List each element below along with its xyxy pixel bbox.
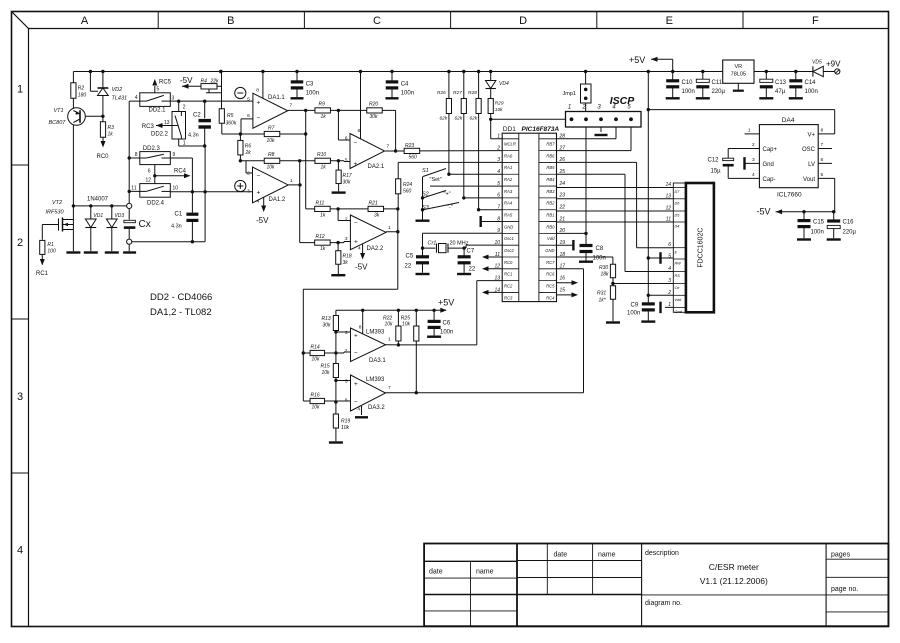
svg-text:DA1.1: DA1.1 [268,95,285,101]
svg-text:GND: GND [504,224,513,229]
svg-text:Gnd: Gnd [675,310,683,314]
svg-text:2: 2 [17,237,23,249]
svg-text:100n: 100n [593,256,606,262]
svg-text:100n: 100n [306,91,319,97]
svg-text:R18: R18 [343,254,352,260]
svg-text:R30: R30 [599,265,608,271]
svg-text:C8: C8 [596,246,604,252]
svg-text:DA2.1: DA2.1 [368,164,385,170]
svg-text:name: name [476,569,494,576]
svg-text:15µ: 15µ [711,169,722,175]
svg-text:VD2: VD2 [112,87,123,93]
svg-text:DA1,2 - TL082: DA1,2 - TL082 [150,307,212,318]
svg-text:RC3: RC3 [504,295,513,300]
svg-text:R15: R15 [321,364,330,370]
svg-text:15: 15 [560,287,566,293]
svg-text:VT1: VT1 [54,108,64,114]
svg-text:30k: 30k [343,180,352,186]
svg-text:560: 560 [409,155,418,161]
svg-text:1: 1 [668,302,671,308]
svg-text:+9V: +9V [826,60,841,69]
svg-text:1k: 1k [320,246,326,252]
svg-text:R31: R31 [597,291,606,297]
svg-text:8: 8 [256,88,259,94]
svg-text:RB1: RB1 [546,213,554,218]
svg-text:R19: R19 [341,419,350,425]
svg-text:Vdd: Vdd [547,236,555,241]
svg-text:22: 22 [559,205,566,211]
svg-text:100n: 100n [627,311,640,317]
svg-text:R1: R1 [47,242,54,248]
svg-text:RB0: RB0 [546,224,555,229]
svg-text:6: 6 [497,193,500,199]
svg-text:12: 12 [665,206,671,212]
svg-text:diagram no.: diagram no. [645,600,682,607]
svg-text:C7: C7 [467,249,475,255]
svg-text:C12: C12 [708,158,720,164]
svg-text:VD4: VD4 [499,81,509,87]
svg-text:20 MHz: 20 MHz [450,241,469,247]
svg-text:3: 3 [752,157,755,163]
svg-text:5: 5 [345,158,348,164]
svg-text:2: 2 [247,171,250,177]
svg-text:14: 14 [665,182,671,188]
svg-text:DD2.4: DD2.4 [147,201,165,207]
svg-text:4: 4 [752,172,755,178]
svg-text:Vdd: Vdd [675,298,683,302]
svg-text:30k: 30k [370,114,379,120]
svg-text:3: 3 [668,278,671,284]
svg-text:S2: S2 [422,192,429,198]
svg-text:18k: 18k [601,272,610,278]
svg-text:5: 5 [821,172,824,178]
svg-text:2: 2 [581,105,586,111]
svg-text:C10: C10 [682,80,694,86]
svg-text:BC807: BC807 [49,120,67,126]
svg-text:Cap+: Cap+ [763,147,778,153]
svg-text:Cx: Cx [139,219,151,230]
svg-text:DD2.1: DD2.1 [149,108,167,114]
svg-text:pages: pages [831,552,851,559]
svg-text:R12: R12 [316,234,325,240]
svg-text:5: 5 [247,96,250,102]
svg-text:VT2: VT2 [52,200,62,206]
svg-text:4: 4 [668,266,671,272]
svg-text:V1.1 (21.12.2006): V1.1 (21.12.2006) [700,576,768,586]
svg-text:Osc1: Osc1 [504,236,514,241]
svg-text:10k: 10k [267,138,276,144]
svg-text:180: 180 [78,93,87,99]
svg-text:DD2.3: DD2.3 [143,146,161,152]
svg-text:−: − [354,220,358,227]
svg-text:DA4: DA4 [782,117,795,124]
svg-text:5: 5 [157,87,160,93]
svg-text:−: − [354,350,358,357]
svg-text:C: C [373,15,381,27]
svg-text:3: 3 [497,157,500,163]
svg-text:MCLR: MCLR [504,142,516,147]
svg-text:R21: R21 [369,201,378,207]
svg-text:RA4: RA4 [504,201,513,206]
svg-text:14: 14 [494,287,500,293]
svg-text:S3: S3 [422,205,430,211]
svg-text:220µ: 220µ [712,89,726,95]
svg-text:1k*: 1k* [599,298,607,304]
svg-text:C/ESR meter: C/ESR meter [709,562,759,572]
svg-text:8: 8 [135,152,138,158]
svg-text:220µ: 220µ [843,230,857,236]
svg-text:25: 25 [559,169,566,175]
svg-text:10k: 10k [402,322,411,328]
svg-text:C9: C9 [631,303,639,309]
svg-text:8: 8 [358,128,361,134]
svg-text:RA5: RA5 [504,213,513,218]
svg-text:"+": "+" [444,192,451,198]
svg-text:1: 1 [748,128,751,134]
svg-text:OSC: OSC [802,147,816,153]
svg-text:30k: 30k [323,323,332,329]
svg-text:1: 1 [388,225,391,231]
svg-text:3: 3 [345,236,348,242]
svg-text:3: 3 [17,391,23,403]
svg-text:D: D [519,15,527,27]
svg-text:R2: R2 [78,86,85,92]
svg-text:18: 18 [560,252,566,258]
svg-text:1k: 1k [321,114,327,120]
svg-text:R5: R5 [227,113,234,119]
svg-text:100n: 100n [440,330,453,336]
svg-text:21: 21 [559,216,566,222]
svg-text:RW: RW [675,262,682,266]
svg-text:DA3.2: DA3.2 [368,405,385,411]
svg-text:8: 8 [497,216,500,222]
svg-text:7: 7 [387,144,390,150]
svg-text:3: 3 [172,96,175,102]
svg-text:1: 1 [568,105,571,111]
svg-text:100n: 100n [401,91,414,97]
svg-text:5: 5 [345,379,348,385]
svg-text:100n: 100n [682,89,695,95]
svg-text:-5V: -5V [757,207,771,217]
svg-text:+5V: +5V [438,298,454,308]
svg-text:C2: C2 [193,113,201,119]
svg-text:11: 11 [666,217,671,223]
svg-text:22: 22 [469,267,476,273]
svg-text:7: 7 [497,205,500,211]
svg-text:3k: 3k [374,213,380,219]
svg-text:47µ: 47µ [775,89,786,95]
svg-text:13: 13 [494,275,500,281]
svg-text:VD5: VD5 [812,60,822,66]
svg-text:R6: R6 [245,144,252,150]
svg-text:C15: C15 [813,220,825,226]
svg-text:4: 4 [357,407,360,413]
svg-text:10k: 10k [341,425,350,431]
svg-text:RA2: RA2 [504,177,513,182]
svg-text:date: date [429,569,443,576]
svg-text:2: 2 [345,348,348,354]
svg-text:RC3: RC3 [142,124,155,130]
svg-text:1: 1 [388,337,391,343]
svg-text:RC0: RC0 [97,154,110,160]
svg-text:10k: 10k [312,357,321,363]
svg-text:1k: 1k [320,213,326,219]
svg-text:9: 9 [173,152,176,158]
svg-text:RC6: RC6 [546,272,555,277]
svg-text:name: name [598,552,616,559]
svg-text:26: 26 [559,157,566,163]
svg-text:2: 2 [752,142,755,148]
svg-text:R3: R3 [108,125,115,131]
svg-text:R26: R26 [437,90,446,96]
svg-text:8: 8 [821,128,824,134]
svg-text:+: + [354,333,358,340]
svg-text:R23: R23 [405,143,414,149]
svg-text:17: 17 [560,264,566,270]
svg-text:6: 6 [345,136,348,142]
svg-text:16: 16 [560,275,566,281]
svg-text:A: A [81,15,89,27]
svg-text:E: E [666,15,673,27]
svg-text:4: 4 [257,198,260,204]
svg-text:7: 7 [821,142,824,148]
svg-text:100n: 100n [805,89,818,95]
svg-text:FDCC1602C: FDCC1602C [698,228,705,268]
svg-text:+: + [257,190,261,197]
svg-text:10: 10 [494,240,500,246]
svg-text:100: 100 [47,249,56,255]
svg-text:4: 4 [497,169,500,175]
svg-text:10k: 10k [312,405,321,411]
svg-text:4: 4 [17,545,23,557]
svg-text:12: 12 [145,178,151,184]
svg-text:R7: R7 [268,126,275,132]
svg-text:R13: R13 [322,316,331,322]
svg-text:13: 13 [665,193,671,199]
svg-text:−: − [257,173,261,180]
svg-text:ICL7660: ICL7660 [777,192,802,199]
svg-text:DD1: DD1 [503,126,516,133]
svg-text:Osc2: Osc2 [504,248,514,253]
svg-text:C16: C16 [843,220,855,226]
svg-text:RB6: RB6 [546,153,555,158]
svg-text:100n: 100n [811,230,824,236]
svg-text:62k: 62k [440,116,448,122]
svg-text:V+: V+ [807,132,815,138]
svg-text:19: 19 [560,240,566,246]
svg-text:3k: 3k [343,260,349,266]
svg-text:+: + [257,100,261,107]
svg-text:+: + [354,239,358,246]
svg-text:5: 5 [497,181,500,187]
svg-text:Jmp1: Jmp1 [563,91,576,97]
svg-text:IRF530: IRF530 [46,210,65,216]
svg-text:F: F [812,15,819,27]
svg-text:R28: R28 [468,90,477,96]
svg-text:RC1: RC1 [504,272,512,277]
svg-text:6: 6 [345,398,348,404]
svg-text:RB4: RB4 [546,177,555,182]
svg-text:RB5: RB5 [546,165,555,170]
svg-text:RA0: RA0 [504,153,513,158]
svg-text:R8: R8 [268,152,275,158]
svg-text:Cr1: Cr1 [428,241,437,247]
svg-text:1k: 1k [108,132,114,138]
svg-text:C3: C3 [306,82,314,88]
svg-text:2: 2 [345,217,348,223]
svg-text:28: 28 [559,134,566,140]
svg-text:LM393: LM393 [366,330,385,336]
svg-text:20: 20 [559,228,566,234]
svg-text:560: 560 [403,189,412,195]
svg-text:3: 3 [247,188,250,194]
svg-text:1: 1 [17,83,23,95]
svg-text:6: 6 [247,113,250,119]
svg-text:−: − [257,115,261,122]
svg-text:10: 10 [173,186,179,192]
svg-text:4.3n: 4.3n [171,224,182,230]
svg-text:1: 1 [497,134,500,140]
svg-text:R24: R24 [403,182,412,188]
svg-text:10k: 10k [322,370,331,376]
svg-text:RB3: RB3 [546,189,555,194]
svg-text:RC4: RC4 [546,295,555,300]
svg-text:10k: 10k [267,165,276,171]
svg-text:11: 11 [495,252,500,258]
svg-text:S1: S1 [422,168,429,174]
svg-text:1N4007: 1N4007 [87,197,109,203]
svg-text:-5V: -5V [256,216,269,225]
svg-text:22k: 22k [210,79,220,85]
svg-text:RB7: RB7 [546,142,555,147]
svg-text:8: 8 [359,325,362,331]
svg-text:R11: R11 [316,201,325,207]
svg-text:24: 24 [559,181,566,187]
svg-text:1: 1 [290,178,293,184]
svg-text:4.3n: 4.3n [188,133,199,139]
svg-text:+5V: +5V [629,55,645,65]
svg-text:10k: 10k [495,107,503,113]
svg-text:RA1: RA1 [504,165,512,170]
svg-text:"Set": "Set" [430,177,442,183]
svg-text:78L05: 78L05 [731,72,746,78]
svg-text:B: B [227,15,234,27]
svg-text:3: 3 [345,330,348,336]
svg-text:−: − [354,140,358,147]
svg-text:DA3.1: DA3.1 [369,358,386,364]
svg-text:date: date [554,552,568,559]
svg-text:D4: D4 [675,225,680,229]
svg-text:11: 11 [131,186,136,192]
svg-text:2: 2 [183,105,186,111]
svg-text:R27: R27 [453,90,462,96]
svg-text:VD1: VD1 [93,213,103,219]
svg-text:+: + [354,381,358,388]
svg-text:62k: 62k [455,116,463,122]
svg-text:VR: VR [734,64,742,70]
svg-text:TL431: TL431 [112,96,128,102]
svg-text:PIC16F873A: PIC16F873A [522,126,560,133]
svg-text:−: − [354,399,358,406]
svg-text:2k: 2k [245,150,252,156]
svg-text:12: 12 [494,264,500,270]
svg-text:R29: R29 [495,101,504,107]
svg-text:RC7: RC7 [546,260,555,265]
svg-text:C1: C1 [175,212,183,218]
svg-text:C14: C14 [805,80,817,86]
svg-text:RC2: RC2 [504,283,513,288]
svg-text:2: 2 [667,290,671,296]
svg-text:27: 27 [559,145,566,151]
svg-text:-5V: -5V [355,263,368,272]
svg-text:C5: C5 [406,254,414,260]
svg-text:DA1.2: DA1.2 [269,197,286,203]
svg-text:VD3: VD3 [114,213,124,219]
svg-text:C11: C11 [712,80,723,86]
svg-text:R4: R4 [201,79,208,85]
svg-text:RS: RS [675,274,681,278]
svg-text:360k: 360k [226,121,237,127]
svg-text:DD2 - CD4066: DD2 - CD4066 [150,292,212,303]
svg-text:RC5: RC5 [159,80,172,86]
svg-text:6: 6 [668,242,671,248]
svg-text:6: 6 [821,157,824,163]
svg-text:Cap-: Cap- [763,177,776,183]
svg-text:R16: R16 [311,393,320,399]
svg-text:R14: R14 [311,345,320,351]
svg-text:R9: R9 [319,102,326,108]
svg-text:7: 7 [388,385,391,391]
svg-text:7: 7 [290,103,293,109]
svg-text:5: 5 [668,254,671,260]
svg-text:description: description [645,550,679,557]
svg-text:GND: GND [545,248,554,253]
svg-text:DD2.2: DD2.2 [151,132,169,138]
svg-text:4: 4 [135,95,138,101]
svg-text:1: 1 [183,141,186,147]
svg-text:C13: C13 [775,80,787,86]
svg-text:Ctr: Ctr [675,286,681,290]
svg-text:RC4: RC4 [174,169,187,175]
svg-text:RC0: RC0 [504,260,513,265]
svg-text:DA2.2: DA2.2 [367,246,384,252]
svg-text:62k: 62k [470,116,478,122]
svg-text:Gnd: Gnd [763,162,774,168]
svg-text:C6: C6 [443,321,451,327]
svg-text:+: + [354,161,358,168]
svg-text:"-": "-" [447,205,453,211]
svg-text:R17: R17 [343,173,352,179]
svg-text:LV: LV [808,162,815,168]
svg-text:2: 2 [496,145,500,151]
svg-text:R20: R20 [369,102,378,108]
svg-text:10k: 10k [385,322,394,328]
svg-text:RC5: RC5 [546,283,555,288]
svg-text:C4: C4 [401,82,409,88]
svg-text:-5V: -5V [180,76,193,85]
svg-text:4: 4 [358,246,361,252]
svg-text:page no.: page no. [831,586,858,593]
svg-text:Vout: Vout [803,177,815,183]
svg-text:13: 13 [164,120,170,126]
svg-text:RA3: RA3 [504,189,513,194]
svg-text:9: 9 [497,228,500,234]
svg-text:RB2: RB2 [546,201,555,206]
svg-text:LM393: LM393 [366,377,385,383]
svg-text:R10: R10 [317,152,326,158]
svg-text:23: 23 [559,193,566,199]
svg-text:RC1: RC1 [36,271,49,277]
